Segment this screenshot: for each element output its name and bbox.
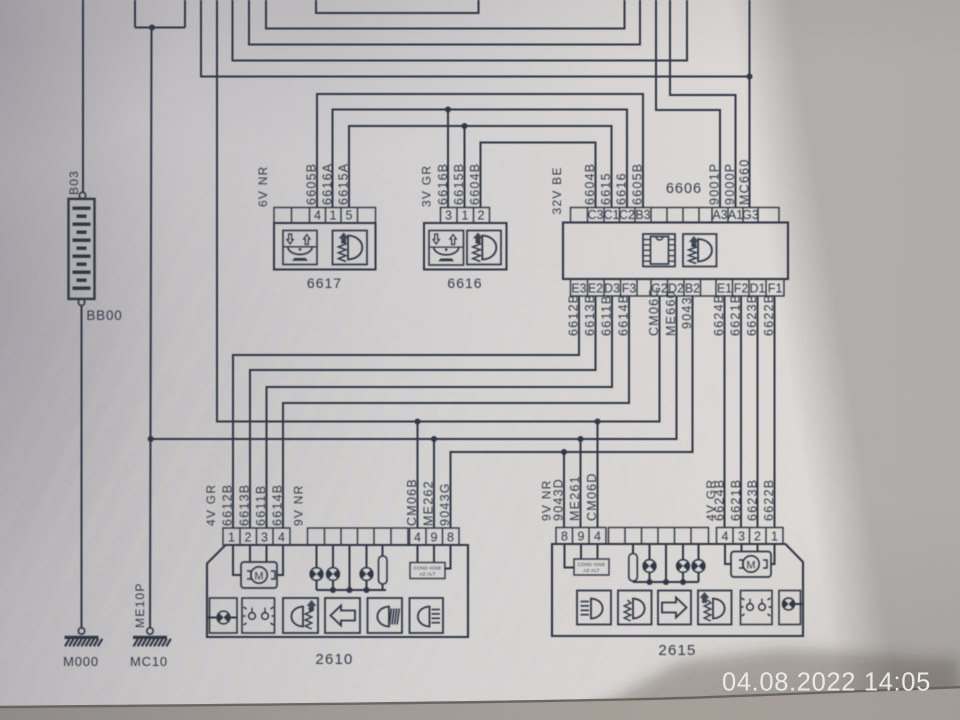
- wire net CM06 from top: [217, 0, 660, 422]
- wire 2615 bulb2 bottom: [682, 572, 684, 582]
- wire 2615 resistor feed: [632, 544, 634, 554]
- wire 2615 pin8 to box: [565, 544, 575, 568]
- resistor 2610: [379, 556, 388, 584]
- bulb 2615 c: [692, 560, 705, 573]
- connector 6616 body: [424, 223, 507, 270]
- bulb 2610 a: [310, 568, 323, 581]
- connector 6617 body: [274, 223, 376, 270]
- wire 2610 bulb2 top: [332, 545, 334, 568]
- wire CM06B branch: [417, 422, 419, 529]
- icon low beam left 2610: [283, 598, 318, 633]
- junction 2610 bus a: [330, 587, 336, 593]
- op-unit 6606 body: [563, 223, 788, 280]
- ground M000: [78, 628, 84, 634]
- icon turn arrow left 2610: [325, 598, 360, 633]
- battery BB00: [69, 199, 95, 299]
- wire 2610 pin3 to motor: [266, 545, 268, 562]
- wire CM06D branch: [597, 422, 599, 528]
- wire bus L3: [249, 0, 640, 45]
- bulb 2610 b: [327, 568, 340, 581]
- wire 2610 bulb3 bottom: [366, 580, 368, 590]
- wire 2610 plain feed: [349, 545, 351, 590]
- connector 6617 pin row: [274, 208, 376, 224]
- icon turn arrow right 2615: [658, 591, 691, 625]
- wire 2610 pin1 to motor: [233, 545, 241, 575]
- wire 2610 bulb bus: [317, 589, 387, 591]
- icon headlamp right 2615: [698, 591, 732, 625]
- junction MC660 bus: [747, 74, 753, 80]
- bulb 2610 b1: [217, 611, 230, 624]
- wire net 6612B: [233, 296, 579, 528]
- wire 2615 bulb bus: [633, 581, 699, 583]
- wire bus L4: [233, 0, 688, 61]
- wire bus L5 to MC660: [201, 0, 750, 77]
- wire 2610 pin4r to box: [417, 545, 419, 563]
- wire 2615 b6 right: [795, 603, 804, 605]
- wire 2610 bulb1 bottom: [316, 580, 318, 590]
- bulb 2615 b6: [783, 598, 795, 610]
- connector 6606 bottom pin row: [571, 279, 785, 296]
- wire top box bus: [135, 27, 185, 29]
- bulb 2615 b: [677, 560, 690, 573]
- motor M 2615: [731, 552, 771, 578]
- wire net 6621B: [740, 296, 742, 528]
- icon high beam left 2610: [368, 598, 403, 633]
- junction 2615 bus c: [680, 579, 686, 585]
- wire 2615 bulb1 bottom: [649, 572, 651, 582]
- wire net 6623B: [757, 296, 759, 528]
- icon headlamp leveling 6617: [283, 231, 317, 265]
- wire battery to ground M000: [81, 306, 83, 628]
- lamp cell 2610 b1: [210, 598, 238, 633]
- connector 6616 pin row: [441, 208, 490, 224]
- icon control IC 6606: [643, 234, 675, 267]
- wire net 9043: [451, 296, 693, 528]
- wire 6616B branch: [447, 110, 449, 208]
- wire net ME660: [151, 296, 677, 439]
- wire 9001P: [656, 0, 720, 208]
- wire 2615 bulb1 top: [649, 544, 651, 560]
- bulb 2610 c: [360, 568, 373, 581]
- connector 2610 pin row C: [410, 528, 460, 545]
- wire 2615 bulb3 top: [698, 544, 700, 560]
- battery BB00 terminal bottom: [78, 299, 84, 305]
- photo bottom dark band (screen edge): [0, 687, 960, 720]
- wire 2610 resistor feed: [382, 545, 384, 556]
- wire 2615 bulb2 top: [682, 544, 684, 560]
- icon fog lamp right 2615: [577, 591, 611, 625]
- wire 9000P: [670, 0, 736, 208]
- wire net 6611B: [267, 296, 613, 528]
- junction CM06B: [415, 419, 421, 425]
- wire net 6604B: [481, 143, 596, 208]
- connector 2610 pin row A: [223, 528, 290, 545]
- connector 6606 top pin row: [571, 208, 780, 223]
- icon fog lamp left 2610: [410, 598, 444, 633]
- wire ME262 branch: [433, 439, 435, 528]
- wire net 6605B: [317, 94, 643, 208]
- wire net 6622B: [774, 296, 776, 528]
- wire 2610 pin8 to box: [445, 545, 451, 569]
- junction 6616B: [445, 107, 451, 113]
- wire net 6613B: [250, 296, 596, 528]
- wire 2615 pin4r to motor: [725, 544, 731, 564]
- wire 2615 resistor bottom: [632, 581, 634, 582]
- junction 2610 bus c: [364, 587, 370, 593]
- wire 2610 bulb2 bottom: [332, 580, 334, 590]
- wire 2610 bulb1 top: [316, 545, 318, 568]
- wire 6615B branch: [464, 126, 466, 208]
- junction CM06D: [595, 419, 601, 425]
- junction 2615 bus b: [663, 579, 669, 585]
- bottom-right soft photo shadow: [545, 649, 960, 720]
- wire 2615 bulb3 bottom: [698, 572, 700, 582]
- wire bus L1: [316, 0, 479, 13]
- wire 2610 b1 right: [230, 617, 237, 619]
- icon side lamps 2615: [741, 591, 773, 625]
- wire 2610 resistor bottom: [382, 584, 384, 590]
- junction 2615 bus a: [647, 579, 653, 585]
- junction ME261: [578, 436, 584, 442]
- junction 6615B: [462, 123, 468, 129]
- battery BB00 terminal top: [79, 192, 85, 198]
- wire 9043D branch: [563, 452, 565, 528]
- icon side lamps 2610: [242, 598, 275, 633]
- wire bus L2: [266, 0, 625, 29]
- wire 2610 b1 left: [207, 617, 217, 619]
- wire top box right leg: [184, 0, 186, 28]
- connector 2615 pin row B: [609, 528, 709, 545]
- wire net 6614B: [283, 296, 629, 528]
- wire net 6624B: [724, 296, 726, 528]
- wire top box left leg: [134, 0, 136, 28]
- resistor 2615: [629, 554, 638, 582]
- ground MC10: [147, 628, 153, 634]
- relay COND IGNE 2610: [410, 563, 445, 579]
- relay COND IGNE 2615: [574, 559, 609, 575]
- icon headlamp 6616: [467, 231, 501, 265]
- icon headlamp leveling 6616: [429, 231, 464, 266]
- unit 2615 body: [552, 544, 803, 636]
- connector 2610 pin row B: [308, 528, 409, 545]
- junction 9043D: [561, 449, 567, 455]
- wire 2615 pin3 to motor: [741, 544, 743, 552]
- wire 2615 pin2 to motor: [757, 544, 759, 552]
- wire battery top feed: [82, 0, 84, 192]
- wire 2610 pin2 to motor: [249, 545, 251, 562]
- wire 2615 plain feed: [665, 544, 667, 582]
- wire 2610 pin4 to motor: [277, 545, 283, 575]
- connector 2615 pin row C: [717, 528, 784, 545]
- connector 2615 pin row A: [556, 528, 606, 545]
- screen bezel edge line: [0, 687, 960, 707]
- wire MC660 vertical: [749, 0, 751, 208]
- wire ME10P to ground MC10: [150, 28, 152, 628]
- wire 2615 pin4l to box: [597, 544, 599, 559]
- icon headlamp 6617: [333, 231, 368, 265]
- junction ME660 tap: [148, 436, 154, 442]
- wire ME261 branch: [580, 439, 582, 528]
- wire 2610 pin9 to box: [433, 545, 435, 563]
- lamp cell 2615 b6: [779, 591, 801, 625]
- junction top box: [149, 25, 155, 31]
- junction 2610 bus b: [347, 587, 353, 593]
- icon low beam right 2615: [618, 591, 652, 625]
- icon headlamp 6606: [683, 234, 717, 267]
- unit 2610 body: [207, 545, 468, 637]
- motor M 2610: [241, 562, 277, 588]
- wire 2610 bulb3 top: [366, 545, 368, 568]
- wire net 6615: [349, 126, 612, 208]
- wire 2615 pin9 to box: [580, 544, 582, 559]
- bulb 2615 a: [643, 560, 656, 573]
- wire net 6616: [333, 110, 628, 208]
- wire 2615 pin1 to motor: [771, 544, 775, 564]
- junction ME262: [431, 436, 437, 442]
